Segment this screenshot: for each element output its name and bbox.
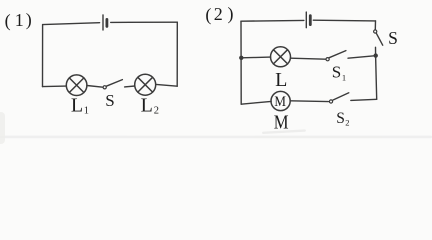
battery B2 negative plate xyxy=(309,16,312,25)
svg-text:M: M xyxy=(274,111,289,133)
junction A xyxy=(239,56,243,60)
svg-text:L: L xyxy=(275,69,287,91)
wire: top-right corner down to switch S pivot xyxy=(374,21,376,30)
switch S2 pivot xyxy=(329,100,332,103)
battery B1 negative plate xyxy=(106,19,109,26)
wire: circuit2 top-right segment xyxy=(313,19,375,22)
wire: lamp L1 to switch S xyxy=(87,86,103,88)
svg-text:L: L xyxy=(71,94,83,116)
wire: switch S1 to junction B xyxy=(348,56,376,59)
wire: circuit2 top-left segment xyxy=(241,19,304,22)
svg-text:2: 2 xyxy=(154,105,159,116)
wire: switch S to lamp L2 xyxy=(125,85,135,88)
svg-text:1: 1 xyxy=(342,72,346,82)
svg-text:S: S xyxy=(105,91,114,110)
label L (circuit2) xyxy=(275,69,287,91)
label S (circuit1) xyxy=(105,91,114,110)
junction B xyxy=(374,53,378,57)
switch S lever (circuit2) xyxy=(376,33,383,45)
figure label (1) xyxy=(5,10,32,32)
wire: circuit2 left vertical xyxy=(240,21,242,104)
svg-text:L: L xyxy=(141,94,153,116)
figure label (2) xyxy=(205,4,233,26)
wire: circuit1 bottom-left to lamp L1 xyxy=(43,85,67,88)
svg-text:1: 1 xyxy=(84,105,89,116)
label S1 xyxy=(332,62,346,82)
lamp L1 xyxy=(66,75,87,96)
switch S pivot xyxy=(103,86,106,89)
battery B1 positive plate xyxy=(102,15,104,30)
motor M xyxy=(271,91,290,110)
switch S1 lever xyxy=(329,51,346,58)
label L2 xyxy=(141,94,159,116)
wire: lamp L2 to bottom-right corner xyxy=(156,84,177,86)
label L1 xyxy=(71,94,89,116)
label M xyxy=(274,111,289,133)
svg-text:S: S xyxy=(388,28,398,48)
wire: motor M to switch S2 xyxy=(290,100,328,103)
lamp L (circuit2) xyxy=(271,47,291,67)
wire: circuit1 top-left segment xyxy=(43,23,100,25)
svg-text:M: M xyxy=(274,94,286,110)
wire: junction B down to bottom-right corner xyxy=(376,56,377,100)
label S2 xyxy=(336,110,349,128)
scan smudge left edge xyxy=(0,112,5,144)
wire: junction A to lamp L xyxy=(241,56,270,59)
lamp L2 xyxy=(135,74,156,95)
svg-text:2: 2 xyxy=(345,117,349,127)
wire: bottom-left corner to motor M xyxy=(241,101,271,104)
battery B2 positive plate xyxy=(305,12,307,28)
wire: circuit1 right vertical xyxy=(176,22,178,86)
wire: lamp L to switch S1 xyxy=(291,58,325,59)
label S (circuit2) xyxy=(388,28,398,48)
svg-text:S: S xyxy=(336,110,345,127)
switch S pivot (circuit2) xyxy=(374,30,377,33)
wire: circuit1 left vertical xyxy=(42,25,44,87)
wire: switch S2 to bottom-right corner xyxy=(351,99,377,100)
wire: circuit1 top-right segment xyxy=(111,21,178,23)
scan smudge band bottom xyxy=(0,129,432,138)
svg-text:S: S xyxy=(332,62,341,81)
switch S lever xyxy=(106,80,122,87)
switch S1 pivot xyxy=(326,58,329,61)
svg-text:(2): (2) xyxy=(205,4,233,26)
switch S2 lever xyxy=(333,93,349,100)
motor M letter xyxy=(274,94,286,110)
wire: switch S contact to junction B xyxy=(375,47,377,55)
svg-text:(1): (1) xyxy=(5,10,32,32)
